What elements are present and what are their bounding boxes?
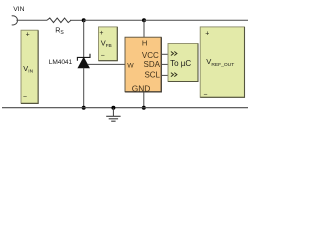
svg-text:H: H: [142, 39, 147, 48]
svg-text:SDA: SDA: [144, 60, 161, 69]
svg-text:−: −: [203, 91, 207, 98]
stub wire VCC to uC box: [161, 53, 168, 55]
chevrons >> on VCC row: [171, 52, 177, 56]
zener cathode bar of LM4041: [77, 54, 90, 61]
chevrons >> on SCL row: [171, 73, 177, 77]
svg-text:To µC: To µC: [170, 59, 191, 68]
svg-text:−: −: [23, 94, 27, 101]
svg-text:VIN: VIN: [13, 6, 24, 13]
svg-text:+: +: [26, 31, 30, 38]
ground rail wire: [2, 107, 248, 109]
input terminal VIN: [12, 16, 18, 25]
wire LM4041 FB to potentiometer W pin: [88, 63, 126, 65]
junction dot LM4041 anode on rail: [82, 106, 86, 110]
annotation box VREF_OUT: [200, 27, 244, 97]
ground symbol: [112, 108, 114, 116]
annotation box VFB: [99, 27, 118, 61]
wire VIN terminal to resistor: [16, 19, 47, 21]
svg-text:+: +: [99, 30, 103, 37]
wire node A down to LM4041 cathode: [83, 20, 85, 57]
digital potentiometer IC U1: [125, 37, 161, 92]
junction dot ground symbol on rail: [111, 106, 115, 110]
annotation box To uC: [168, 44, 198, 82]
node B junction dot: [142, 18, 146, 22]
stub wire SCL to uC box: [161, 74, 168, 76]
svg-text:LM4041: LM4041: [49, 59, 73, 66]
annotation box VIN source: [21, 30, 38, 103]
node A junction dot: [82, 18, 86, 22]
wire node B to right edge (VREF_OUT net): [144, 19, 248, 21]
wire potentiometer GND pin to rail: [143, 92, 145, 108]
diode triangle of LM4041: [78, 58, 89, 68]
svg-text:SCL: SCL: [144, 71, 160, 80]
resistor RS: [47, 18, 71, 23]
stub wire SDA to uC box: [161, 63, 168, 65]
svg-text:−: −: [101, 52, 105, 59]
wire node B down to potentiometer H pin: [143, 20, 145, 37]
junction dot GND pin on rail: [142, 106, 146, 110]
svg-text:W: W: [127, 63, 134, 70]
svg-text:VCC: VCC: [142, 51, 159, 60]
wire resistor to node A: [70, 19, 84, 21]
wire node A to node B: [84, 19, 144, 21]
svg-text:+: +: [205, 30, 209, 37]
svg-text:GND: GND: [132, 83, 151, 93]
wire LM4041 anode to ground rail: [83, 68, 85, 108]
